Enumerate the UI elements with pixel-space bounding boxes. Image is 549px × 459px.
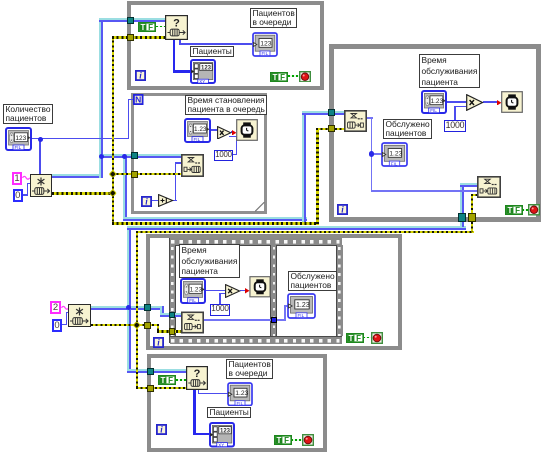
svg-text:FIL: FIL	[298, 313, 305, 318]
svg-text:123: 123	[220, 429, 231, 435]
svg-text:1.23: 1.23	[389, 151, 402, 158]
svg-text:?: ?	[173, 18, 180, 30]
svg-text:T: T	[277, 436, 282, 445]
svg-text:F: F	[356, 334, 361, 343]
svg-text:1.23: 1.23	[235, 390, 248, 397]
svg-text:FIL: FIL	[237, 400, 244, 405]
svg-text:FIL: FIL	[262, 51, 269, 56]
svg-text:FIL: FIL	[15, 145, 22, 150]
svg-text:T: T	[141, 23, 146, 32]
svg-text:F: F	[148, 23, 153, 32]
svg-text:T: T	[507, 206, 512, 215]
svg-text:1.23: 1.23	[190, 286, 203, 293]
svg-text:T: T	[349, 334, 354, 343]
svg-text:FIL: FIL	[430, 108, 437, 113]
svg-text:F: F	[515, 206, 520, 215]
svg-text:F: F	[284, 436, 289, 445]
svg-text:FIL: FIL	[391, 161, 398, 166]
svg-text:N: N	[135, 95, 141, 105]
svg-text:1.23: 1.23	[431, 98, 444, 105]
svg-text:123: 123	[201, 65, 212, 71]
svg-text:T: T	[161, 376, 166, 385]
svg-text:XY: XY	[199, 79, 205, 84]
svg-text:F: F	[168, 376, 173, 385]
svg-text:T: T	[273, 72, 278, 81]
svg-text:F: F	[280, 72, 285, 81]
svg-text:FIL: FIL	[194, 136, 201, 141]
svg-text:?: ?	[194, 368, 201, 380]
svg-text:1.23: 1.23	[296, 302, 310, 309]
svg-text:1.23: 1.23	[194, 126, 207, 133]
svg-text:XY: XY	[218, 442, 224, 447]
svg-text:123: 123	[15, 135, 26, 142]
svg-text:FIL: FIL	[189, 298, 196, 303]
svg-text:123: 123	[260, 40, 272, 47]
